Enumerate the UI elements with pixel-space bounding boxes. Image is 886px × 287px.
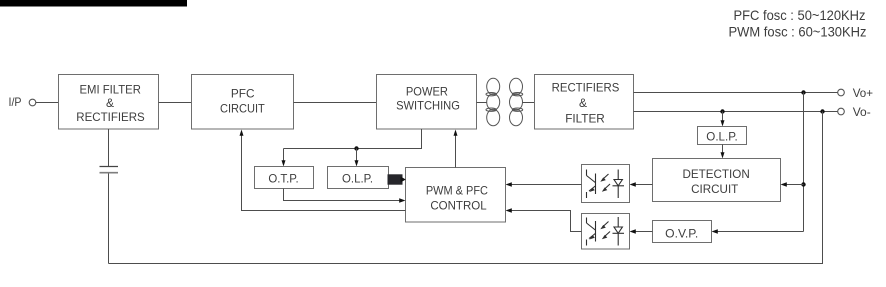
svg-text:O.T.P.: O.T.P. xyxy=(268,171,298,185)
transformer T1 secondary winding xyxy=(510,78,523,126)
wire PWM left to PFC bottom with arrow up xyxy=(242,135,406,211)
svg-text:CIRCUIT: CIRCUIT xyxy=(691,182,739,196)
wire PFC to POWER SWITCHING xyxy=(294,102,377,104)
svg-text:PFC: PFC xyxy=(231,86,255,100)
svg-text:PFC fosc : 50~120KHz: PFC fosc : 50~120KHz xyxy=(734,7,866,23)
wire OLP down to DETECTION with arrow xyxy=(722,145,724,153)
wire transformer to RECTIFIERS xyxy=(522,102,534,104)
svg-text:PWM fosc : 60~130KHz: PWM fosc : 60~130KHz xyxy=(729,24,867,40)
block POWER SWITCHING xyxy=(377,75,477,130)
block O.L.P. (output) xyxy=(698,127,747,145)
optocoupler U1 xyxy=(582,165,630,203)
wire opto1 to PWM with arrow xyxy=(512,184,582,186)
capacitor C1 xyxy=(100,166,119,168)
block EMI FILTER & RECTIFIERS xyxy=(59,75,159,130)
block O.V.P. xyxy=(653,221,712,243)
svg-text:POWER: POWER xyxy=(406,84,448,98)
svg-text:SWITCHING: SWITCHING xyxy=(396,99,460,113)
node Vo- terminal xyxy=(838,108,845,115)
header black bar xyxy=(0,0,187,7)
wire into DETECTION right with arrow xyxy=(787,184,804,186)
wire Vo+ drop to detection xyxy=(803,93,805,232)
wire Vo- rail xyxy=(634,111,838,113)
transformer T1 primary winding xyxy=(486,78,500,126)
svg-text:CONTROL: CONTROL xyxy=(430,199,487,213)
LED xyxy=(617,170,619,180)
wire POWER SWITCHING to transformer xyxy=(477,102,488,104)
block O.L.P. (mid) xyxy=(328,167,389,189)
wire opto2 to PWM with jog and arrow xyxy=(512,211,582,232)
svg-text:RECTIFIERS: RECTIFIERS xyxy=(76,110,145,124)
phototransistor xyxy=(586,218,588,224)
wire into OVP right with arrow xyxy=(718,231,804,233)
svg-text:&: & xyxy=(579,96,587,110)
wire OTP down and right into PWM with arrow xyxy=(284,189,400,201)
wire PWM up to POWER SWITCHING with arrow xyxy=(455,135,457,168)
wire DETECTION left to opto1 with arrow xyxy=(636,184,653,186)
wire Vo- tap down to OLP with arrow xyxy=(722,112,724,121)
svg-text:EMI FILTER: EMI FILTER xyxy=(80,82,142,96)
block PWM & PFC CONTROL xyxy=(406,168,506,223)
svg-text:PWM & PFC: PWM & PFC xyxy=(426,183,488,197)
svg-text:RECTIFIERS: RECTIFIERS xyxy=(552,81,620,95)
svg-text:&: & xyxy=(106,96,114,110)
svg-text:FILTER: FILTER xyxy=(565,111,605,125)
capacitor C1 lead from EMI xyxy=(108,129,110,166)
svg-text:O.V.P.: O.V.P. xyxy=(665,227,698,241)
block PFC CIRCUIT xyxy=(192,75,294,130)
wire bottom return rail xyxy=(109,112,823,264)
wire down to OTP with arrow xyxy=(283,149,285,162)
svg-text:Vo-: Vo- xyxy=(853,105,871,119)
light arrows xyxy=(603,174,609,180)
wire I/P to EMI xyxy=(36,102,59,104)
wire OVP left to opto2 with arrow xyxy=(636,231,653,233)
svg-text:Vo+: Vo+ xyxy=(853,86,873,100)
wire Vo+ rail xyxy=(634,92,838,94)
wire POWER SWITCHING down to OTP/OLP rail xyxy=(284,129,422,149)
thick link OLP mid to PWM xyxy=(388,174,403,184)
svg-text:I/P: I/P xyxy=(9,95,22,109)
junction dot at detection feed xyxy=(801,182,805,186)
junction dot on Vo- rail right xyxy=(820,109,824,113)
svg-text:O.L.P.: O.L.P. xyxy=(706,129,737,143)
junction dot on OTP/OLP rail xyxy=(354,146,358,150)
phototransistor xyxy=(586,170,588,176)
optocoupler U2 xyxy=(582,214,630,250)
junction dot on Vo- rail at OLP tap xyxy=(720,109,724,113)
node Vo+ terminal xyxy=(838,89,845,96)
svg-text:O.L.P.: O.L.P. xyxy=(342,171,373,185)
block RECTIFIERS & FILTER xyxy=(535,75,634,130)
light arrows xyxy=(603,222,609,228)
junction dot on Vo+ rail xyxy=(801,90,805,94)
LED xyxy=(617,217,619,227)
block DETECTION CIRCUIT xyxy=(653,159,781,202)
svg-text:CIRCUIT: CIRCUIT xyxy=(220,102,265,116)
wire capacitor down to bottom rail xyxy=(108,174,110,264)
block O.T.P. xyxy=(255,167,314,189)
wire EMI to PFC xyxy=(159,102,192,104)
wire down to OLP mid with arrow xyxy=(356,149,358,162)
svg-text:DETECTION: DETECTION xyxy=(682,167,749,181)
